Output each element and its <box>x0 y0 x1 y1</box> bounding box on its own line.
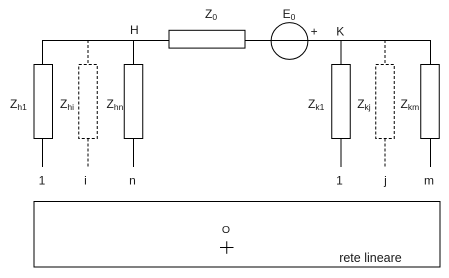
svg-text:rete lineare: rete lineare <box>339 251 402 265</box>
origin cross in rete lineare <box>220 247 234 249</box>
wire top bus right segment through source <box>245 40 431 42</box>
wire drop branch n at node H <box>133 40 135 65</box>
impedance Zh1 <box>34 65 53 139</box>
impedance Zkj (dashed) <box>376 65 395 139</box>
svg-text:1: 1 <box>336 174 343 188</box>
wire stub below Zhn <box>133 139 135 168</box>
wire stub below Zhi (dashed) <box>87 139 89 168</box>
svg-text:n: n <box>129 174 136 188</box>
wire stub below Zkm <box>430 139 432 168</box>
wire drop branch 1 right at node K <box>340 40 342 65</box>
wire drop branch j (dashed) <box>384 40 386 65</box>
wire stub below Zkj (dashed) <box>384 139 386 168</box>
impedance Zhn <box>124 65 143 139</box>
wire top bus left segment <box>43 40 170 42</box>
svg-text:m: m <box>424 174 434 188</box>
wire stub below Zh1 <box>42 139 44 168</box>
impedance Zkm <box>421 65 440 139</box>
wire stub below Zk1 <box>340 139 342 168</box>
svg-text:j: j <box>383 174 387 188</box>
impedance Zhi (dashed) <box>79 65 98 139</box>
impedance Z0 box <box>169 30 245 48</box>
svg-text:+: + <box>311 25 318 39</box>
svg-text:H: H <box>130 23 139 37</box>
svg-text:i: i <box>84 174 87 188</box>
svg-text:O: O <box>222 224 230 236</box>
wire drop branch m right <box>430 40 432 65</box>
source E0 circle <box>271 23 308 60</box>
rete lineare box <box>34 202 440 268</box>
wire drop branch i (dashed) <box>87 40 89 65</box>
svg-text:K: K <box>336 25 344 39</box>
impedance Zk1 <box>332 65 351 139</box>
svg-text:1: 1 <box>39 174 46 188</box>
wire drop branch 1 left <box>42 40 44 65</box>
